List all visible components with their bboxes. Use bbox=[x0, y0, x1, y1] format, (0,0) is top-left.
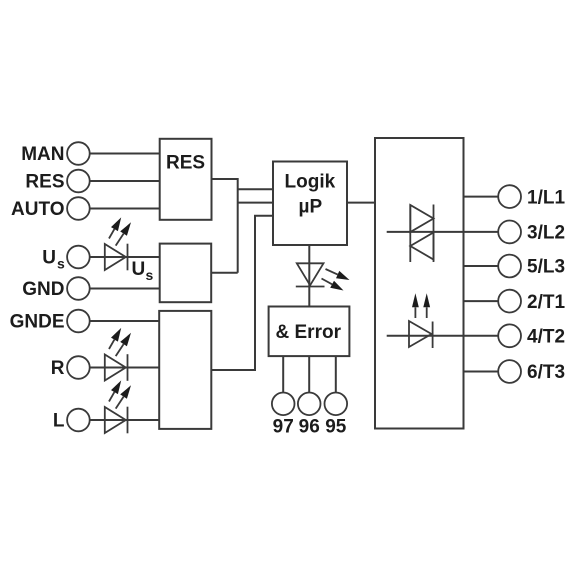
svg-text:97: 97 bbox=[273, 417, 294, 438]
wire L to control box bbox=[90, 419, 160, 421]
wire stub to 6/T3 bbox=[464, 371, 499, 373]
terminal 5/L3 circle bbox=[498, 255, 521, 278]
label Us bbox=[42, 248, 65, 272]
wire supply box output bbox=[211, 272, 238, 274]
svg-text:1/L1: 1/L1 bbox=[527, 187, 565, 208]
block Error box bbox=[269, 307, 350, 357]
svg-text:& Error: & Error bbox=[276, 322, 342, 343]
terminal R circle bbox=[67, 356, 90, 379]
wire Error to terminal 95 bbox=[335, 356, 337, 392]
wire stub to 5/L3 bbox=[464, 265, 499, 267]
wire diode row to terminal 4/T2 bbox=[387, 335, 499, 337]
wire MAN to RES box bbox=[90, 153, 160, 155]
terminal Us circle bbox=[67, 246, 90, 269]
svg-text:µP: µP bbox=[299, 197, 323, 218]
svg-text:RES: RES bbox=[25, 172, 64, 193]
block Logik uP box bbox=[273, 162, 347, 246]
terminal 96 circle bbox=[298, 393, 321, 416]
block supply box bbox=[160, 244, 212, 303]
svg-text:5/L3: 5/L3 bbox=[527, 257, 565, 278]
wire triac row to terminal 3/L2 bbox=[387, 231, 499, 233]
svg-text:L: L bbox=[53, 411, 65, 432]
block control box bbox=[159, 311, 211, 429]
wire RES to RES box bbox=[90, 180, 160, 182]
terminal RES circle bbox=[67, 170, 90, 193]
svg-text:96: 96 bbox=[299, 417, 320, 438]
terminal MAN circle bbox=[67, 142, 90, 165]
terminal 95 circle bbox=[325, 393, 348, 416]
wire R to control box bbox=[90, 367, 160, 369]
wire GNDE to control box bbox=[90, 320, 160, 322]
svg-text:GND: GND bbox=[22, 279, 64, 300]
svg-text:AUTO: AUTO bbox=[11, 199, 64, 220]
terminal 4/T2 circle bbox=[498, 324, 521, 347]
label Us at LED D1 bbox=[132, 259, 154, 283]
terminal 2/T1 circle bbox=[498, 290, 521, 313]
terminal 1/L1 circle bbox=[498, 185, 521, 208]
wire Logik down to Error box bbox=[308, 245, 310, 307]
wire node bus to Logik input 1 bbox=[238, 188, 273, 190]
LED D2 on R line bbox=[105, 328, 131, 381]
svg-text:95: 95 bbox=[325, 417, 347, 438]
terminal 6/T3 circle bbox=[498, 360, 521, 383]
svg-text:6/T3: 6/T3 bbox=[527, 362, 565, 383]
terminal 97 circle bbox=[272, 393, 295, 416]
svg-text:U: U bbox=[42, 248, 56, 269]
terminal GND circle bbox=[67, 277, 90, 300]
LED D3 on L line bbox=[105, 380, 131, 433]
terminal L circle bbox=[67, 409, 90, 432]
wire GND to supply box bbox=[90, 288, 160, 290]
block RES box bbox=[160, 139, 212, 220]
LED D1 on Us line bbox=[105, 217, 131, 270]
triac Q1 bbox=[410, 205, 433, 263]
wire Us to supply box bbox=[90, 256, 160, 258]
svg-text:MAN: MAN bbox=[21, 144, 64, 165]
wire Error to terminal 96 bbox=[308, 356, 310, 392]
svg-text:s: s bbox=[146, 267, 154, 283]
svg-text:4/T2: 4/T2 bbox=[527, 327, 565, 348]
LED D4 error indicator bbox=[296, 263, 350, 290]
block power box bbox=[375, 138, 464, 429]
wire AUTO to RES box bbox=[90, 208, 160, 210]
svg-text:U: U bbox=[132, 259, 146, 280]
svg-text:R: R bbox=[51, 358, 65, 379]
wire stub to 1/L1 bbox=[464, 196, 499, 198]
terminal AUTO circle bbox=[67, 197, 90, 220]
wire stub to 2/T1 bbox=[464, 300, 499, 302]
svg-text:2/T1: 2/T1 bbox=[527, 292, 565, 313]
terminal GNDE circle bbox=[67, 310, 90, 333]
wire node bus to Logik input 2 bbox=[238, 202, 273, 204]
wire Error to terminal 97 bbox=[282, 356, 284, 392]
svg-text:Logik: Logik bbox=[285, 172, 336, 193]
svg-text:RES: RES bbox=[166, 153, 205, 174]
svg-text:3/L2: 3/L2 bbox=[527, 223, 565, 244]
terminal 3/L2 circle bbox=[498, 221, 521, 244]
svg-text:GNDE: GNDE bbox=[10, 312, 65, 333]
wire RES box output bbox=[212, 179, 238, 273]
photo diode D5 in power box bbox=[409, 293, 433, 348]
wire control box output to Logik bbox=[211, 216, 273, 370]
svg-text:s: s bbox=[57, 256, 65, 272]
wire Logik to power box bbox=[347, 202, 375, 204]
